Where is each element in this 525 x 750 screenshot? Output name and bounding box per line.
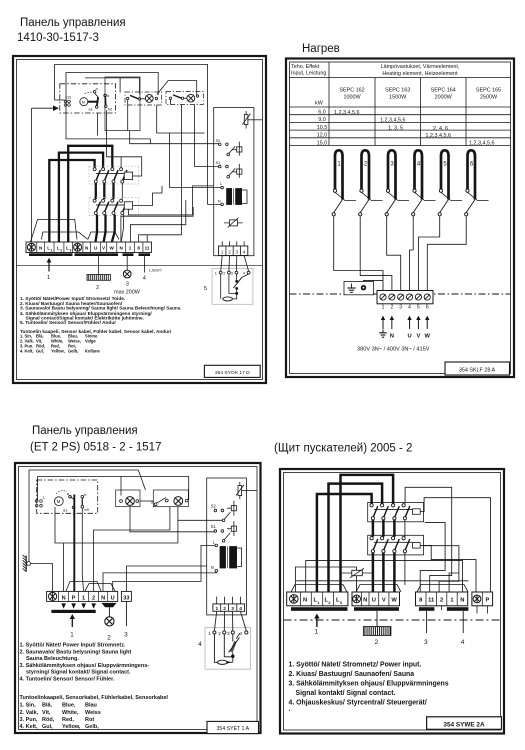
svg-text:1,2,3,4,5,6: 1,2,3,4,5,6 <box>469 141 494 147</box>
svg-text:N: N <box>101 596 105 602</box>
svg-text:Red,: Red, <box>62 717 74 723</box>
wire pole4 top <box>120 157 122 168</box>
svg-text:Gelb,: Gelb, <box>85 724 99 730</box>
wire element4 to terminal 4 <box>410 216 414 291</box>
svg-text:1500W: 1500W <box>389 95 407 101</box>
svg-text:Yellow,: Yellow, <box>62 724 81 730</box>
terminal labels row <box>39 246 150 253</box>
svg-text:P: P <box>485 598 489 604</box>
strip labels P3 <box>62 596 115 602</box>
svg-text:1,2,3,4,5,6: 1,2,3,4,5,6 <box>426 133 451 139</box>
sensor terminals P3 <box>213 631 248 634</box>
contact a P3 <box>69 495 72 498</box>
rail 1 with earth chevrons <box>29 470 138 562</box>
switch d pole <box>154 503 157 506</box>
arrow to N <box>390 316 394 329</box>
svg-text:Rot: Rot <box>85 717 94 723</box>
svg-text:S1: S1 <box>211 524 217 529</box>
svg-text:4: 4 <box>417 162 421 168</box>
svg-text:1: 1 <box>315 629 319 636</box>
svg-text:3. Pun,: 3. Pun, <box>20 717 39 723</box>
contact b <box>104 94 107 97</box>
svg-text:SEPC 164: SEPC 164 <box>431 88 456 94</box>
sensor strip pins P3 <box>216 597 218 604</box>
svg-text:2: 2 <box>92 596 95 602</box>
fuse output wire P3 <box>242 490 257 492</box>
svg-text:15,0: 15,0 <box>317 140 328 146</box>
motor M P3 <box>54 497 63 506</box>
sensor strip pins <box>221 241 223 246</box>
svg-text:Панель управления: Панель управления <box>20 17 126 29</box>
svg-text:Valge: Valge <box>85 339 96 344</box>
svg-text:S2: S2 <box>211 503 217 508</box>
svg-text:2. Saunavalo/ Bastu belysning/: 2. Saunavalo/ Bastu belysning/ Sauna lig… <box>20 650 132 656</box>
contactor K1 linkage <box>374 509 413 511</box>
contactor K2 pole 1 <box>93 199 100 214</box>
table row line 9.0 <box>290 121 512 123</box>
heater labels P4 <box>363 598 397 604</box>
PE terminal symbol 1 <box>27 243 35 251</box>
wire N link <box>306 561 463 592</box>
wire element3 to terminal 3 <box>387 216 401 291</box>
svg-text:4: 4 <box>243 249 246 254</box>
lamp wire P3 <box>108 607 110 616</box>
thick wire U to terminal <box>372 553 375 592</box>
fuse F1 <box>245 111 247 129</box>
wire lamp link diagonal <box>157 81 197 95</box>
table column kW <box>328 62 330 146</box>
contactor K1 pole 2 <box>102 168 109 183</box>
PE symbol P3 <box>49 592 57 600</box>
title panel 1 <box>17 17 126 44</box>
terminal block X1 <box>377 291 433 304</box>
svg-text:N: N <box>62 596 66 602</box>
svg-text:1,2,3,4,5,6: 1,2,3,4,5,6 <box>334 110 359 116</box>
arrow to V <box>416 316 420 329</box>
svg-text:White,: White, <box>62 710 79 716</box>
svg-text:3: 3 <box>390 162 394 168</box>
terminal 33 box <box>121 591 131 601</box>
lamp output bracket <box>102 603 117 607</box>
svg-text:4: 4 <box>408 305 411 311</box>
panel 4 outer frame <box>280 469 504 734</box>
fuse F1 P4 <box>352 570 363 575</box>
lamp unit box 1 P3 <box>116 490 140 507</box>
fuse F1 P3 <box>239 482 241 499</box>
wire 33 to relay box <box>126 566 206 591</box>
svg-text:Gelb,: Gelb, <box>68 348 78 353</box>
sensor wires P3 <box>214 611 246 631</box>
svg-text:N: N <box>303 598 307 604</box>
separator chain line P4 <box>284 619 502 621</box>
legend text panel 4 <box>289 662 449 716</box>
sensor capsule <box>223 297 233 301</box>
lamp wire <box>126 256 128 270</box>
wire terminal 8 <box>420 523 445 592</box>
svg-text:3: 3 <box>424 639 428 646</box>
svg-text:6: 6 <box>470 162 474 168</box>
wire U to L <box>113 545 215 591</box>
svg-text:5: 5 <box>204 286 207 292</box>
mains labels P4 <box>303 598 343 605</box>
svg-text:Weiss: Weiss <box>85 710 101 716</box>
svg-text:2: 2 <box>60 249 62 253</box>
motor linkage dashed P3 <box>56 491 67 494</box>
drawing number box SYOK <box>204 365 260 377</box>
element 4 link wire <box>415 192 436 200</box>
contactor K2 housing <box>89 198 139 216</box>
drawing number box SKLF <box>445 362 510 375</box>
contactor K2 pole 2 <box>102 199 109 214</box>
contact b0 <box>105 105 108 108</box>
wire coil K2 link <box>133 186 162 206</box>
loom right P4 <box>417 585 468 593</box>
sensor strip numbers P3 <box>215 606 242 612</box>
svg-text:1. Syöttö/ Nätet/ Stromnetz/ P: 1. Syöttö/ Nätet/ Stromnetz/ Power input… <box>289 662 422 669</box>
svg-text:W: W <box>110 246 115 251</box>
bus bar heater P4 <box>354 607 399 611</box>
table row line 12.0 <box>290 137 512 139</box>
contactor K2 pole 3 <box>111 199 118 214</box>
svg-text:b0: b0 <box>108 108 112 112</box>
svg-text:1: 1 <box>51 249 53 253</box>
svg-text:1: 1 <box>215 271 217 276</box>
drawing number box SYET <box>207 721 259 733</box>
panel 1 inner frame <box>17 60 263 380</box>
svg-text:1000W: 1000W <box>343 95 361 101</box>
svg-text:1,5mm²: 1,5mm² <box>149 269 163 273</box>
wire S2 horizontal <box>178 519 222 521</box>
contact a1 pole <box>95 106 98 109</box>
wire S2 feed P3 <box>55 507 178 543</box>
arm b to b0 <box>81 498 83 505</box>
svg-text:1: 1 <box>208 631 211 636</box>
terminal 3 screw <box>398 294 404 300</box>
right column box P1 <box>214 108 254 256</box>
svg-text:M: M <box>82 100 85 104</box>
mains bus bar P3 <box>51 610 95 613</box>
wire PE link <box>295 567 356 592</box>
contact b0 P3 <box>81 505 84 508</box>
table bottom line <box>290 145 512 147</box>
svg-text:2: 2 <box>228 249 231 254</box>
svg-text:Blau: Blau <box>85 703 97 709</box>
wire terminal 8 feed <box>139 105 182 242</box>
table column SEPC162/163 <box>374 78 376 146</box>
PE symbol right P4 <box>473 595 481 603</box>
PE terminal symbol 2 <box>74 243 82 251</box>
contactor K1 coil P4 <box>413 509 421 515</box>
table column SEPC163/164 <box>420 78 422 146</box>
terminal block mains P4 <box>287 592 348 606</box>
lamp H2 terminal left <box>169 97 171 99</box>
contactor K2 pole 1 <box>370 537 378 553</box>
svg-text:2: 2 <box>218 631 221 636</box>
wire terminal N feed <box>121 207 193 242</box>
sensor detail box P3 <box>205 627 250 669</box>
stems PE P P4 <box>476 606 478 614</box>
panel 2 inner frame <box>290 62 511 374</box>
contactor K2 coil P4 <box>413 543 421 549</box>
svg-text:SEPC 163: SEPC 163 <box>385 88 410 94</box>
thick wire W to terminal <box>393 553 396 592</box>
svg-text:Yellow,: Yellow, <box>51 348 65 353</box>
sensor capsule P3 <box>218 660 228 664</box>
svg-text:N: N <box>363 598 367 604</box>
table column SEPC164/165 <box>465 78 467 146</box>
thick wire a1 to P <box>73 507 75 591</box>
mains thick wire L2 P4 <box>329 484 383 592</box>
svg-text:354 SYET 1 A: 354 SYET 1 A <box>217 726 250 732</box>
svg-text:Lämpövastukset, Värmeelement,: Lämpövastukset, Värmeelement, <box>381 64 460 70</box>
wire rail 3 <box>85 78 140 94</box>
svg-text:Heating element, Heizeelement: Heating element, Heizeelement <box>382 71 458 77</box>
wire lamp1 feed <box>119 78 121 93</box>
heating element 2 hairpin <box>359 150 369 216</box>
signal wire 4 <box>144 256 146 273</box>
element 3 link wire <box>388 192 409 200</box>
svg-text:2: 2 <box>390 305 393 311</box>
svg-text:V: V <box>382 598 386 604</box>
right column box P3 <box>207 478 247 615</box>
lamp1 feed <box>120 477 122 496</box>
contactor K2 pole 2 <box>381 537 389 553</box>
contactor K2 coil <box>124 202 132 209</box>
svg-text:1, 3, 5: 1, 3, 5 <box>388 126 403 132</box>
terminal 2 screw <box>389 294 395 300</box>
lamp H3 P3 <box>105 617 114 626</box>
contactor K2 pole 4 <box>402 537 410 553</box>
pole4 link between contactors <box>404 520 406 537</box>
wire long top loom <box>296 580 468 582</box>
separator line <box>17 265 263 267</box>
stem 2 cell P4 <box>441 606 443 610</box>
svg-text:SEPC 162: SEPC 162 <box>339 88 364 94</box>
coil K1 wire <box>420 498 490 592</box>
svg-text:Blå,: Blå, <box>42 702 53 709</box>
signal labels P4 <box>419 598 464 604</box>
fuse F2 <box>224 222 243 224</box>
svg-text:2. Kiuas/ Bastuugn/ Saunaofen/: 2. Kiuas/ Bastuugn/ Saunaofen/ Sauna <box>289 671 415 678</box>
wire rail B <box>66 73 158 139</box>
arrow to PE <box>381 316 385 329</box>
switch S4 arm <box>173 95 182 98</box>
lamp H2 left wire down <box>170 100 172 105</box>
lamp H1 left wire down <box>127 100 129 131</box>
thick wire U between contactors <box>372 520 375 537</box>
wire N2 to transformer <box>103 572 216 591</box>
wire b0 to 1 <box>82 508 83 591</box>
contact a1 pole P3 <box>72 506 75 509</box>
svg-text:1: 1 <box>382 305 385 311</box>
switch d arm <box>157 498 166 504</box>
heating element 1 hairpin <box>332 150 342 216</box>
svg-text:P: P <box>72 596 76 602</box>
loom P3 left <box>66 581 101 591</box>
item 1 arrow <box>48 262 50 272</box>
svg-text:2. Valk,: 2. Valk, <box>20 710 39 716</box>
svg-text:1410-30-1517-3: 1410-30-1517-3 <box>17 32 99 44</box>
link lamp1 lamp2 <box>140 500 153 502</box>
motor linkage dashed <box>85 92 95 94</box>
sensor detail box <box>212 268 253 304</box>
contact a link <box>95 93 98 97</box>
svg-text:S2: S2 <box>216 138 222 143</box>
svg-text:b: b <box>107 94 109 98</box>
lamp H1 terminal left <box>127 97 129 99</box>
svg-text:3: 3 <box>231 606 234 612</box>
bus bar signal <box>139 253 151 256</box>
lamp unit H2 box <box>166 92 203 105</box>
svg-text:(ET 2 PS) 0518 - 2 - 1517: (ET 2 PS) 0518 - 2 - 1517 <box>30 442 161 454</box>
svg-text:L: L <box>213 540 216 545</box>
bus bar mains <box>29 253 73 256</box>
heater cable stem P4 <box>376 611 378 627</box>
heating element 3 hairpin <box>385 150 395 216</box>
wire branch y133 <box>170 132 205 134</box>
contactor K1 pole 3 <box>111 168 118 183</box>
fuse wire P4 <box>341 572 373 574</box>
svg-text:4: 4 <box>239 606 242 612</box>
svg-text:kW: kW <box>315 101 324 107</box>
signal stem P4 <box>426 611 428 633</box>
lamp H2 terminal right <box>196 95 198 97</box>
wire motor output down <box>96 113 98 136</box>
svg-text:354 SYWE 2A: 354 SYWE 2A <box>443 721 485 728</box>
thick wire pole1 mid <box>95 183 97 199</box>
svg-text:3. Saunavalo/ Bastu belysning/: 3. Saunavalo/ Bastu belysning/ Sauna lig… <box>20 306 181 312</box>
contactor K1 pole 1 <box>370 504 378 520</box>
PE symbol heater P4 <box>353 595 361 603</box>
lamp H1 terminal right <box>155 97 157 99</box>
thin wire pole4 to N <box>121 215 123 242</box>
terminal block PE P P4 <box>472 592 493 606</box>
wire element5 to terminal 5 <box>418 216 439 291</box>
earth symbol in ground box <box>347 284 355 293</box>
wire N tap <box>63 543 65 591</box>
svg-text:3: 3 <box>231 271 233 276</box>
motor M1 <box>80 98 88 106</box>
svg-text:12,0: 12,0 <box>317 133 328 139</box>
svg-text:1,2,3,4,5,6: 1,2,3,4,5,6 <box>380 118 405 124</box>
terminal block signal P4 <box>416 592 468 606</box>
thermistor R1 <box>221 274 249 299</box>
transformer T1 P3 <box>220 547 226 569</box>
lamp1 terminal <box>120 500 123 503</box>
thick wire pole2 mid <box>103 183 105 199</box>
svg-text:4. Ohjauskeskus/ Styrcentral/: 4. Ohjauskeskus/ Styrcentral/ Steuergerä… <box>289 700 427 707</box>
svg-text:354 SKLF 28 A: 354 SKLF 28 A <box>459 368 496 374</box>
lamp H2 <box>187 94 195 102</box>
contactor K1 pole 1 <box>93 168 100 183</box>
mains thick wire L3 <box>68 146 112 242</box>
svg-text:4. Kelt,: 4. Kelt, <box>20 348 33 353</box>
thick wire to W <box>112 215 115 242</box>
thick wire to V <box>104 215 106 242</box>
svg-text:a1: a1 <box>63 508 68 513</box>
svg-text:Blue,: Blue, <box>62 703 76 709</box>
svg-text:Röd,: Röd, <box>42 717 55 723</box>
svg-text:1. Syöttö/ Nätet/ Power Input/: 1. Syöttö/ Nätet/ Power Input/ Stromnetz… <box>20 643 127 649</box>
wire coil K2 loop <box>129 186 214 215</box>
wire lamp1 to L <box>157 105 221 188</box>
pole4 feed wire <box>405 487 452 592</box>
svg-text:2: 2 <box>96 285 99 291</box>
panel 4 inner frame <box>284 473 501 731</box>
ground symbol label <box>379 330 387 338</box>
coil K2 wire <box>420 545 476 592</box>
heater cable marker <box>87 275 111 281</box>
title panel 3 <box>30 425 161 454</box>
lamp H1 P3 <box>126 497 135 506</box>
wire terminal 11 stub <box>146 235 148 242</box>
rail1 drop to lamp unit <box>138 470 145 490</box>
lamp H1 <box>145 95 153 103</box>
wire 2 feed <box>94 507 170 592</box>
chassis earth bar <box>25 556 27 572</box>
switch d contact <box>165 499 168 502</box>
control stem P4 <box>462 611 464 633</box>
svg-text:Signal kontakt/ Signal contact: Signal kontakt/ Signal contact. <box>296 690 396 697</box>
bus bar 1 N P4 <box>447 607 469 611</box>
unit terminals left <box>35 500 42 507</box>
pole4 wire down <box>404 553 406 585</box>
thick wire V to terminal <box>382 553 385 592</box>
svg-text:Teho, Effekt: Teho, Effekt <box>291 64 320 70</box>
svg-text:9,0: 9,0 <box>318 117 326 123</box>
contactor K2 pole 4 <box>120 199 127 214</box>
heating element 6 hairpin <box>465 150 475 216</box>
terminal block heater P4 <box>352 592 400 606</box>
bus bar heater <box>75 253 119 256</box>
contactor K1 linkage line <box>96 173 124 175</box>
rail A hook to unit <box>55 99 65 101</box>
cam bridge thick <box>73 495 75 508</box>
cable loom heater <box>88 232 119 239</box>
terminal block row <box>26 242 151 253</box>
svg-text:10,5: 10,5 <box>317 125 328 131</box>
svg-text:3: 3 <box>399 305 402 311</box>
svg-text:1: 1 <box>82 596 85 602</box>
panel 2 outer frame <box>286 59 514 378</box>
svg-text:a1: a1 <box>89 108 93 112</box>
mains arrows down <box>61 603 96 608</box>
terminal strip P3 <box>47 591 118 601</box>
left feeder wire down <box>31 108 33 242</box>
contact b P3 <box>81 495 84 498</box>
svg-text:V: V <box>416 334 420 340</box>
svg-text:W: W <box>391 598 397 604</box>
cable loom inner <box>41 232 88 239</box>
terminal 1 screw <box>380 294 386 300</box>
timer unit box <box>60 84 116 113</box>
contactor K2 linkage <box>374 541 413 543</box>
cam shaft thick link <box>88 101 99 103</box>
arrow to W <box>425 316 429 329</box>
contact a <box>93 91 96 94</box>
svg-text:1: 1 <box>70 632 74 639</box>
table header row line <box>290 77 512 79</box>
chassis contact bump <box>27 562 31 566</box>
svg-text:Панель управления: Панель управления <box>32 425 138 437</box>
svg-text:4. Tuntoelin/ Sensor/ Sensor/: 4. Tuntoelin/ Sensor/ Sensor/ Fühler. <box>20 677 115 683</box>
svg-text:d: d <box>151 500 153 505</box>
svg-text:Gul,: Gul, <box>42 724 53 730</box>
svg-text:1: 1 <box>215 606 218 612</box>
wire terminal 2 <box>424 546 459 592</box>
svg-text:354 SYOK 17 D: 354 SYOK 17 D <box>215 370 250 376</box>
rail 2 <box>38 477 189 501</box>
